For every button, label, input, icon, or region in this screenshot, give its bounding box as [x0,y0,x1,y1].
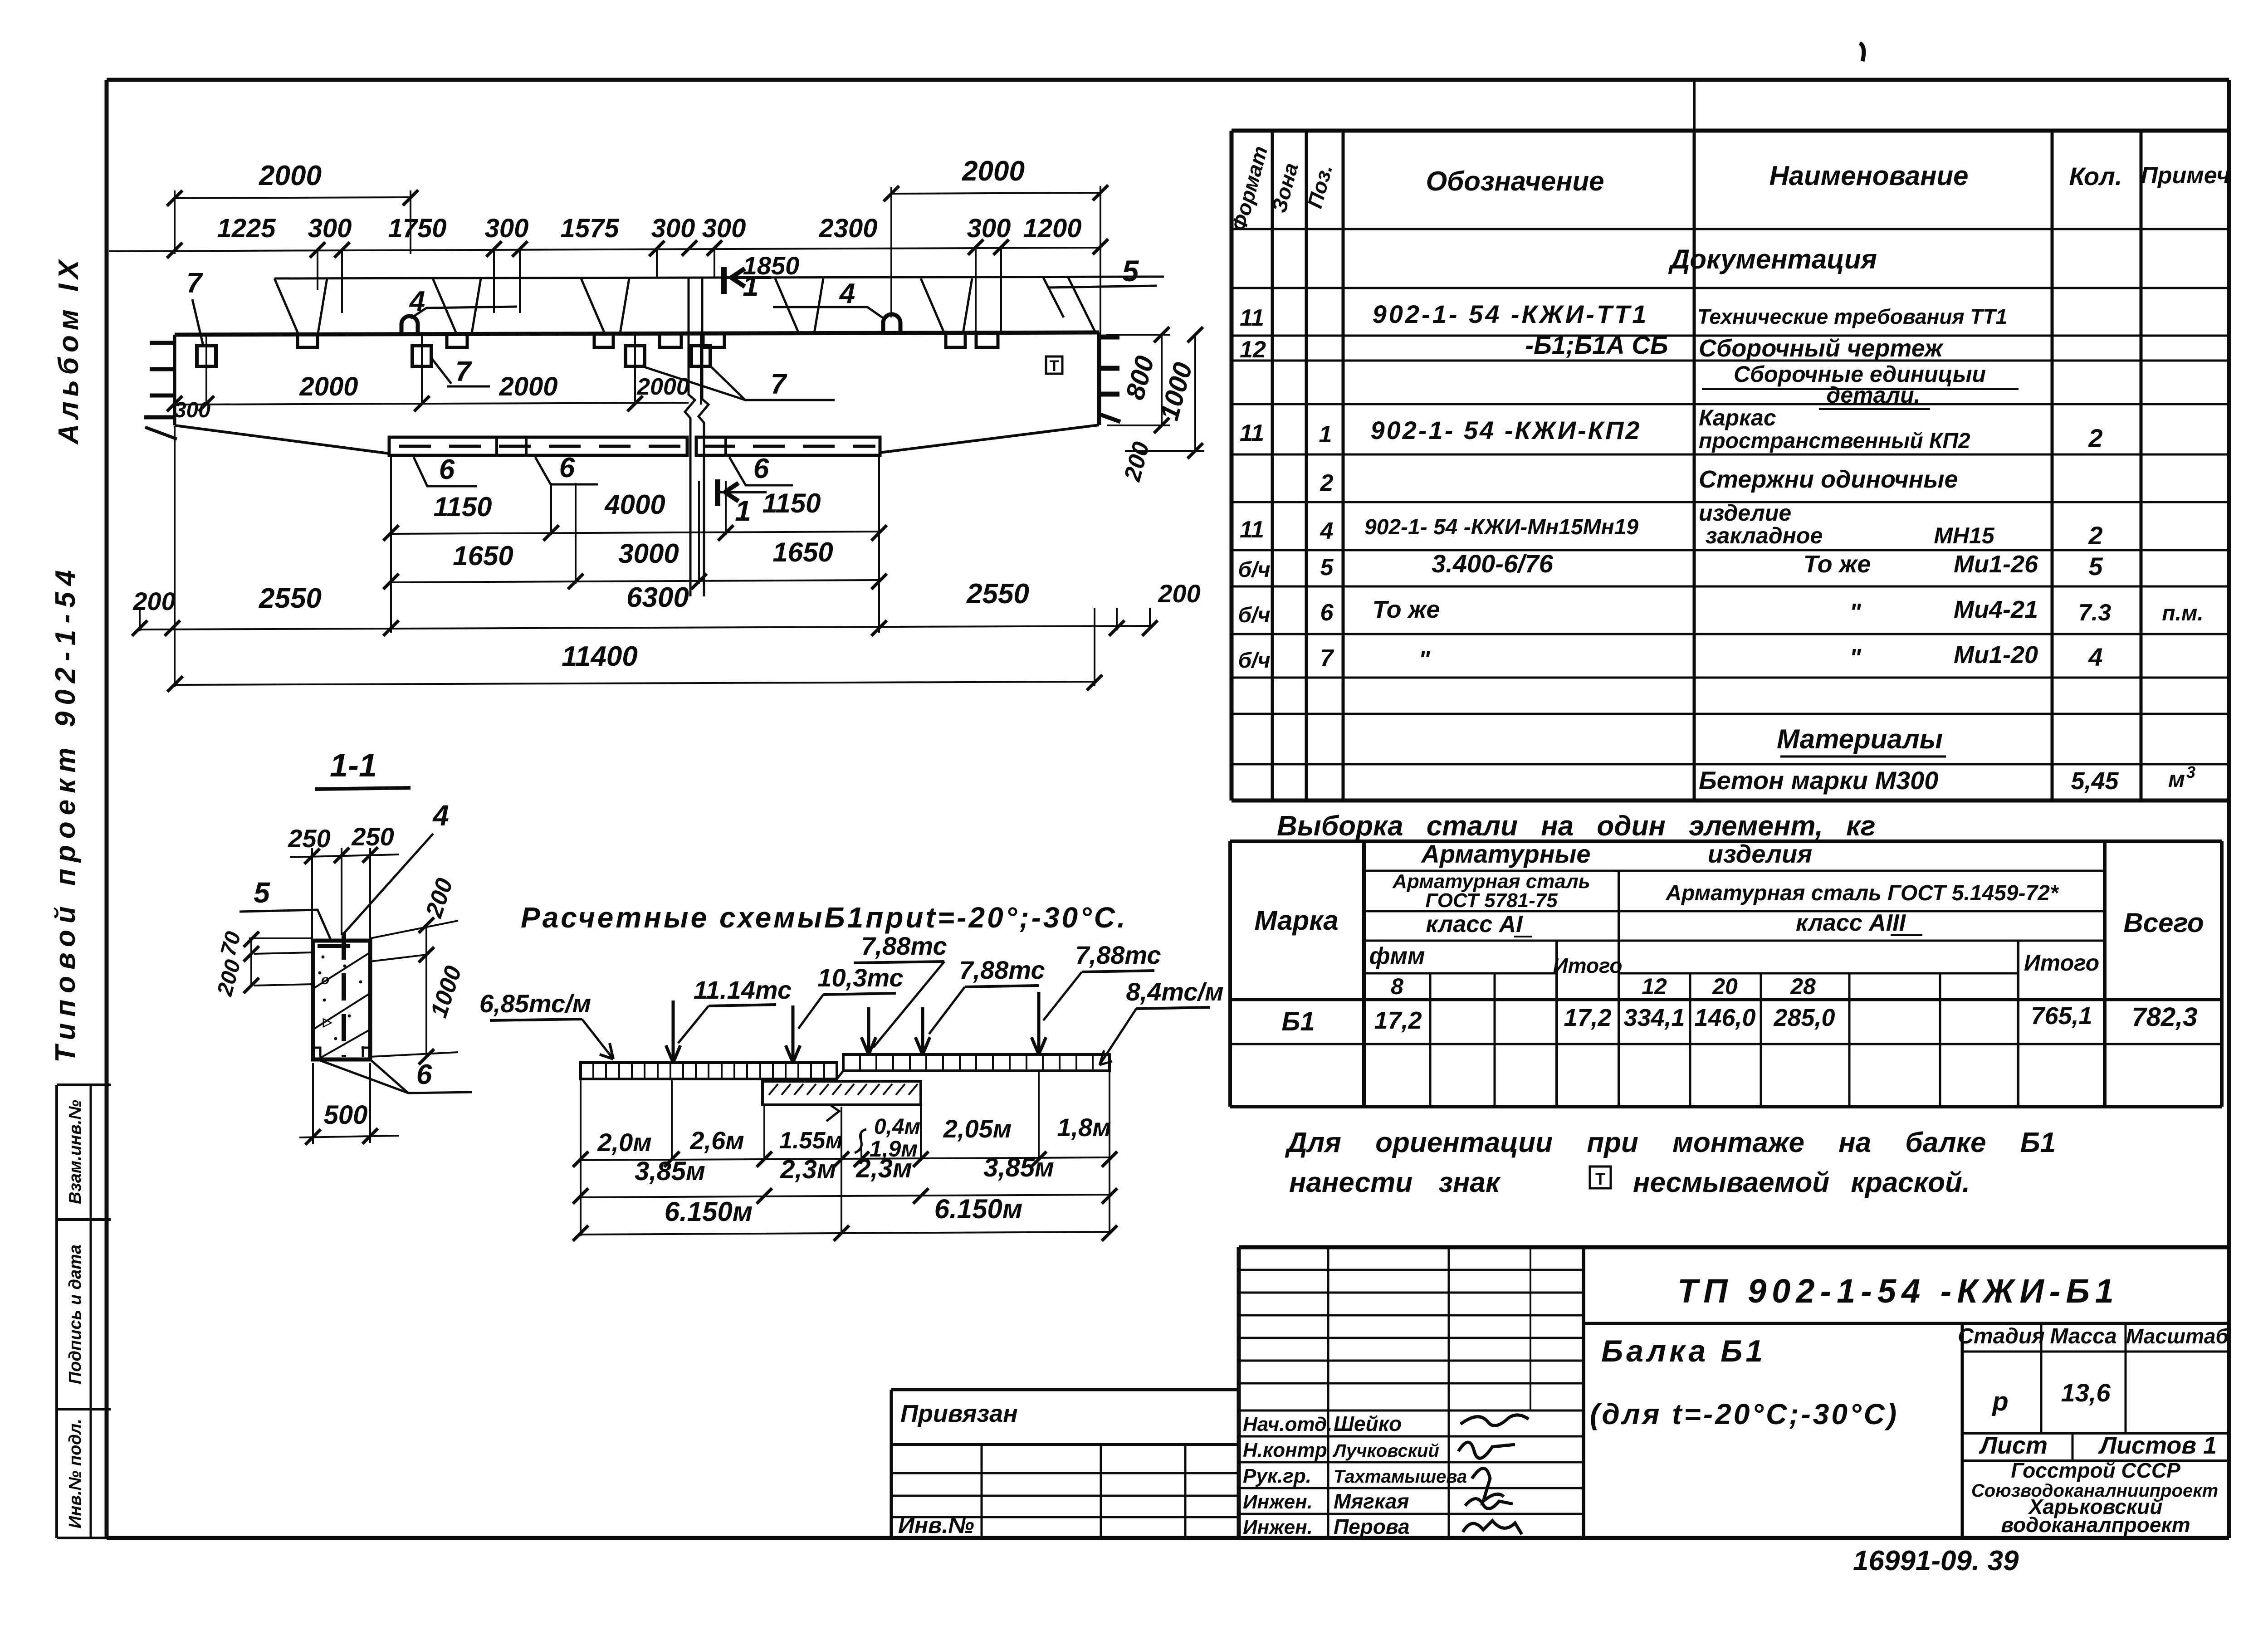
load dim line 1 [581,1157,1110,1160]
svg-text:1: 1 [735,494,751,527]
svg-text:300: 300 [967,214,1011,243]
svg-text:Кол.: Кол. [2069,162,2122,190]
svg-text:3000: 3000 [618,538,679,569]
svg-text:7.3: 7.3 [2078,600,2111,626]
svg-text:8: 8 [1391,974,1403,999]
svg-text:Всего: Всего [2123,908,2204,938]
svg-text:б/ч: б/ч [1238,649,1270,673]
svg-text:Итого: Итого [2024,950,2099,976]
svg-text:Ми1-20: Ми1-20 [1954,641,2038,669]
svg-text:7,88тс: 7,88тс [959,956,1045,984]
svg-text:2,3м: 2,3м [855,1154,912,1183]
svg-text:Технические требования ТТ1: Технические требования ТТ1 [1697,305,2007,328]
svg-text:-Б1;Б1А СБ: -Б1;Б1А СБ [1525,331,1668,359]
svg-text:Н.контр: Н.контр [1243,1439,1327,1461]
svg-text:1000: 1000 [425,963,467,1021]
svg-text:2,3м: 2,3м [780,1155,836,1184]
left dims 70/200 [250,939,252,986]
title block [1239,1245,2229,1249]
svg-text:Масштаб: Масштаб [2126,1324,2229,1348]
distributed load strip left [581,1063,837,1079]
svg-text:12: 12 [1240,337,1266,363]
svg-text:Типовой проект 902-1-54: Типовой проект 902-1-54 [50,564,81,1063]
svg-text:Т: Т [1595,1170,1605,1188]
svg-text:12: 12 [1642,974,1667,999]
svg-text:Документация: Документация [1668,244,1877,274]
svg-text:3.400-6/76: 3.400-6/76 [1432,549,1554,578]
svg-text:Итого: Итого [1553,954,1623,977]
svg-text:водоканалпроект: водоканалпроект [2001,1513,2190,1537]
thin callout line above beam [274,277,1164,278]
svg-text:300: 300 [651,214,695,243]
svg-text:11: 11 [1240,517,1264,543]
svg-text:28: 28 [1790,974,1816,999]
svg-text:1650: 1650 [772,537,833,567]
svg-text:Альбом IX: Альбом IX [53,255,84,445]
svg-text:300: 300 [308,214,352,243]
svg-text:7,88тс: 7,88тс [1075,941,1161,969]
svg-text:Арматурные: Арматурные [1420,839,1590,868]
svg-text:Стадия: Стадия [1958,1324,2044,1348]
svg-text:о: о [321,972,329,987]
svg-text:2: 2 [2088,521,2102,550]
svg-text:5: 5 [2088,552,2103,581]
svg-text:70: 70 [216,929,246,959]
svg-text:Сборочный чертеж: Сборочный чертеж [1699,335,1944,362]
svg-text:2,05м: 2,05м [943,1114,1012,1143]
svg-text:Бетон марки М300: Бетон марки М300 [1699,766,1938,795]
svg-text:334,1: 334,1 [1623,1004,1685,1031]
dim 250 250 [290,854,399,857]
svg-text:Лучковский: Лучковский [1332,1441,1439,1461]
svg-text:": " [1849,644,1862,671]
svg-text:": " [1418,646,1431,673]
svg-text:5: 5 [1320,554,1334,581]
svg-text:1200: 1200 [1023,214,1081,243]
svg-text:1150: 1150 [762,488,821,518]
label T in box [1046,356,1062,374]
svg-text:1-1: 1-1 [330,747,377,784]
svg-text:Взам.инв.№: Взам.инв.№ [66,1100,85,1204]
svg-text:пространственный КП2: пространственный КП2 [1699,429,1970,453]
svg-text:Стержни одиночные: Стержни одиночные [1699,466,1958,493]
svg-text:Подпись и дата: Подпись и дата [66,1245,85,1384]
svg-text:м: м [2168,766,2185,792]
svg-text:1750: 1750 [388,214,446,243]
svg-text:7: 7 [771,369,787,400]
svg-text:2000: 2000 [299,372,358,401]
svg-text:5: 5 [1122,254,1139,288]
svg-text:902-1- 54 -КЖИ-Мн15Мн19: 902-1- 54 -КЖИ-Мн15Мн19 [1364,515,1638,539]
load diagram verticals [580,1080,582,1236]
svg-text:фмм: фмм [1369,943,1425,969]
right side vertical dims 800/1000/200 [1106,334,1170,336]
svg-text:класс АI: класс АI [1426,911,1523,937]
svg-text:765,1: 765,1 [2031,1002,2092,1030]
svg-text:285,0: 285,0 [1773,1004,1835,1031]
load dim line 3 [581,1232,1110,1235]
svg-text:2,0м: 2,0м [597,1128,651,1157]
svg-text:250: 250 [288,824,330,853]
svg-text:4000: 4000 [604,489,665,520]
extension verticals below beam [390,457,392,633]
svg-text:1: 1 [743,269,759,302]
svg-text:2000: 2000 [259,160,322,191]
load arrow 7.88tc no3 [1037,992,1041,1054]
svg-text:Материалы: Материалы [1777,724,1943,754]
bottom flange left part [389,437,687,455]
svg-text:6.150м: 6.150м [665,1196,753,1227]
trapezoid callouts [274,278,327,333]
svg-text:Листов 1: Листов 1 [2098,1432,2217,1459]
svg-text:7: 7 [1320,645,1334,671]
svg-text:902-1- 54 -КЖИ-ТТ1: 902-1- 54 -КЖИ-ТТ1 [1373,300,1649,328]
svg-text:2550: 2550 [259,583,322,614]
svg-text:нанести знак: нанести знак [1289,1167,1501,1198]
svg-text:20: 20 [1712,974,1738,999]
vertical dashed bar item 4 in section [342,932,346,1057]
lifting loop 4 right [883,314,900,332]
load dim line 2 [581,1195,1110,1197]
svg-text:Инв.№: Инв.№ [898,1513,974,1538]
svg-text:6: 6 [559,452,575,483]
svg-text:4: 4 [839,278,855,309]
svg-text:Инв.№ подл.: Инв.№ подл. [66,1419,85,1528]
svg-text:5: 5 [254,876,270,909]
svg-text:п.м.: п.м. [2162,601,2204,625]
svg-text:МН15: МН15 [1934,523,1995,548]
svg-text:11400: 11400 [562,641,638,672]
load arrow 7.88tc no2 [921,1007,924,1054]
svg-text:16991-09. 39: 16991-09. 39 [1853,1545,2019,1576]
svg-text:300: 300 [174,398,210,422]
svg-text:200: 200 [213,957,245,999]
svg-text:изделия: изделия [1708,839,1813,868]
svg-text:То же: То же [1804,551,1871,578]
support pads [298,334,318,347]
svg-text:Масса: Масса [2050,1324,2116,1348]
svg-text:6: 6 [753,453,769,484]
svg-text:11: 11 [1240,420,1264,446]
svg-text:Инжен.: Инжен. [1243,1491,1313,1513]
spec table [1230,131,1234,800]
svg-text:782,3: 782,3 [2131,1002,2197,1032]
svg-text:Мягкая: Мягкая [1334,1489,1409,1513]
support hatched block [763,1081,921,1105]
svg-text:11.14тс: 11.14тс [694,976,792,1004]
svg-text:Наименование: Наименование [1769,161,1968,191]
beam left edge [173,335,176,425]
svg-text:Формат: Формат [1227,143,1272,234]
svg-text:6300: 6300 [626,582,689,613]
svg-text:б/ч: б/ч [1238,603,1270,627]
svg-text:закладное: закладное [1706,523,1823,548]
drawing frame [107,78,2229,82]
svg-text:Б1: Б1 [1281,1007,1315,1036]
left protruding rebars [150,341,175,345]
right protruding rebars [1099,335,1119,340]
svg-text:1575: 1575 [560,214,619,243]
beam bottom left slope [175,425,389,454]
load arrow 11.14tc [672,1001,675,1063]
svg-text:2000: 2000 [636,374,689,400]
svg-text:Арматурная сталь ГОСТ 5.1459-: Арматурная сталь ГОСТ 5.1459-72* [1665,881,2059,905]
section cut mark 1 lower [715,479,720,506]
sidebar boxes [57,1083,111,1086]
corner notches [313,1048,320,1057]
svg-text:Балка Б1: Балка Б1 [1601,1334,1766,1368]
svg-text:То же: То же [1373,596,1440,623]
svg-text:146,0: 146,0 [1694,1004,1755,1031]
svg-text:ГОСТ 5781-75: ГОСТ 5781-75 [1425,889,1558,912]
svg-text:6,85тс/м: 6,85тс/м [479,989,591,1018]
svg-text:0,4м: 0,4м [874,1115,920,1139]
svg-text:Выборка стали на один элем: Выборка стали на один элемент, кг [1277,810,1876,842]
svg-text:4: 4 [1320,518,1334,544]
svg-text:Примеч: Примеч [2141,162,2230,189]
beam right edge [1097,332,1101,425]
svg-text:Тахтамышева: Тахтамышева [1334,1467,1467,1487]
svg-text:4: 4 [432,799,449,832]
svg-text:200: 200 [1119,439,1155,484]
svg-text:Каркас: Каркас [1699,405,1776,430]
svg-text:Т: Т [1050,357,1059,375]
right dims 200/1000 [370,921,458,938]
svg-text:8,4тс/м: 8,4тс/м [1126,977,1223,1006]
svg-text:17,2: 17,2 [1564,1004,1611,1031]
svg-text:7: 7 [186,268,203,299]
svg-text:2000: 2000 [499,372,557,401]
svg-text:2: 2 [2088,424,2102,452]
signatures squiggles [1461,1415,1529,1425]
svg-text:300: 300 [485,214,529,243]
svg-text:Нач.отд.: Нач.отд. [1243,1413,1332,1435]
svg-text:6: 6 [1320,600,1334,626]
svg-text:300: 300 [702,214,746,243]
svg-text:902-1- 54 -КЖИ-КП2: 902-1- 54 -КЖИ-КП2 [1370,416,1641,444]
svg-text:1: 1 [1319,421,1332,448]
svg-text:1225: 1225 [217,214,276,243]
svg-text:3,85м: 3,85м [983,1153,1054,1182]
beam internal dim line 300/2000/2000/2000 [175,403,689,405]
bottom dim line D 1650/3000/1650 [391,580,879,582]
bottom dim line F 11400 [175,682,1095,685]
svg-text:Марка: Марка [1254,905,1338,936]
svg-text:6: 6 [416,1059,432,1090]
svg-text:Расчетные схемыБ1приt=-20°;-3: Расчетные схемыБ1приt=-20°;-30°C. [521,901,1128,934]
distributed load strip right [843,1054,1110,1071]
svg-text:4: 4 [409,286,425,317]
svg-text:Для ориентации при монтаже: Для ориентации при монтаже на балке Б1 [1285,1127,2056,1158]
beam top edge [175,332,1099,335]
svg-text:класс АIII: класс АIII [1796,910,1906,936]
svg-text:": " [1849,599,1862,626]
svg-text:4: 4 [2088,643,2102,671]
svg-text:(для t=-20°C;-30°C): (для t=-20°C;-30°C) [1590,1398,1899,1430]
section rect [313,941,370,1059]
svg-text:несмываемой краской.: несмываемой краской. [1633,1167,1970,1198]
svg-text:Обозначение: Обозначение [1426,166,1604,196]
svg-text:6: 6 [439,454,455,485]
svg-text:Перова: Перова [1334,1515,1410,1538]
svg-text:10,3тс: 10,3тс [817,963,903,992]
top plate item 5 in section [318,944,350,948]
right end diagonal marks [1043,278,1095,332]
svg-text:Госстрой СССР: Госстрой СССР [2011,1459,2180,1482]
middle break lines [685,278,695,596]
svg-text:800: 800 [1120,353,1160,403]
svg-text:2300: 2300 [818,214,877,243]
upper dim line A right 2000 [891,193,1100,194]
svg-text:7: 7 [455,356,472,387]
svg-text:3: 3 [2186,763,2195,781]
svg-text:3,85м: 3,85м [635,1157,705,1186]
svg-text:250: 250 [351,822,394,851]
concrete hatch [313,952,370,1059]
svg-text:Ми4-21: Ми4-21 [1954,596,2038,623]
svg-text:Инжен.: Инжен. [1243,1516,1313,1538]
svg-text:200: 200 [421,875,458,921]
upper dim line A left 2000 [175,197,411,198]
svg-text:2550: 2550 [966,578,1029,610]
svg-text:500: 500 [324,1100,368,1130]
svg-text:5,45: 5,45 [2071,767,2119,795]
column divider above spec table [1693,80,1696,131]
stray pen mark top right [1860,43,1864,61]
bottom dim line C 1150/4000/1150 [391,532,879,534]
svg-text:200: 200 [1158,579,1200,608]
svg-text:Лист: Лист [1979,1432,2048,1459]
bottom dim line E 200/2550/6300/2550/200 [140,626,1150,630]
svg-text:2000: 2000 [962,156,1025,187]
dim 500 [299,1136,399,1137]
extension verticals for dims [174,190,176,254]
svg-text:▷: ▷ [323,1015,332,1029]
svg-text:р: р [1991,1387,2008,1416]
svg-text:изделие: изделие [1699,500,1791,526]
svg-text:ТП 902-1-54 -КЖИ-Б1: ТП 902-1-54 -КЖИ-Б1 [1677,1272,2119,1310]
bottom flange right part [696,437,880,455]
svg-text:2,6м: 2,6м [689,1126,744,1155]
svg-text:13,6: 13,6 [2061,1378,2111,1407]
lifting loop 4 left [401,316,418,334]
anchor squares item 7 [197,346,216,366]
svg-text:Рук.гр.: Рук.гр. [1243,1465,1311,1487]
svg-text:Ми1-26: Ми1-26 [1954,551,2038,578]
flange inner dividers [495,438,498,455]
svg-text:17,2: 17,2 [1374,1007,1422,1034]
svg-text:7,88тс: 7,88тс [861,932,947,960]
load arrow 7.88tc no1 [867,1007,870,1054]
dim line B [109,248,1100,251]
load arrow 10.3tc [792,1005,795,1063]
svg-text:1150: 1150 [433,492,492,522]
svg-text:1,8м: 1,8м [1057,1113,1111,1142]
svg-text:6.150м: 6.150м [934,1194,1023,1224]
privyazan box [891,1388,1239,1391]
svg-text:11: 11 [1240,305,1264,331]
svg-text:Шейко: Шейко [1334,1412,1402,1435]
svg-text:2: 2 [1320,470,1334,496]
section cut mark 1 upper [721,267,727,294]
svg-text:б/ч: б/ч [1238,558,1270,582]
svg-text:Привязан: Привязан [900,1400,1018,1427]
svg-text:детали.: детали. [1826,382,1920,408]
svg-text:1.55м: 1.55м [779,1127,843,1154]
beam bottom right slope [880,425,1099,453]
svg-text:1650: 1650 [453,541,513,571]
